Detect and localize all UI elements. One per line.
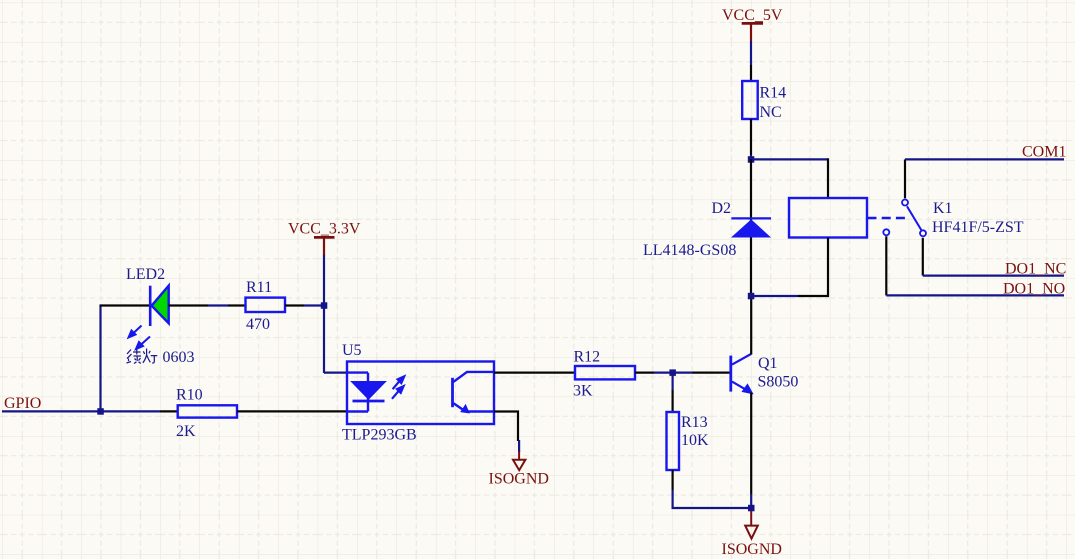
svg-text:DO1_NO: DO1_NO <box>1003 281 1065 298</box>
switch pivot contact <box>902 200 908 206</box>
svg-text:LL4148-GS08: LL4148-GS08 <box>643 242 736 259</box>
resistor R14 <box>742 81 758 119</box>
resistor R11 <box>246 298 286 312</box>
node base junction <box>669 369 676 376</box>
svg-text:U5: U5 <box>342 342 362 359</box>
optocoupler U5 <box>347 362 494 425</box>
LED2 emission arrows <box>129 326 151 350</box>
wire NO vertical (black) <box>885 236 887 295</box>
svg-text:Q1: Q1 <box>758 355 778 372</box>
svg-text:470: 470 <box>246 316 270 333</box>
node collector net top junction <box>748 156 755 163</box>
wire R12 to Q1 base <box>635 372 654 374</box>
svg-text:TLP293GB: TLP293GB <box>342 427 417 444</box>
ground ISOGND (left) <box>513 452 525 471</box>
svg-text:0603: 0603 <box>163 349 195 366</box>
wire GPIO horizontal (navy) <box>2 410 160 412</box>
svg-text:VCC_5V: VCC_5V <box>722 7 783 24</box>
switch arm contact <box>920 230 926 236</box>
wire R10 to U5 pin2 (black) <box>237 410 347 412</box>
svg-text:2K: 2K <box>176 423 196 440</box>
resistor R12 <box>575 366 635 379</box>
svg-text:GPIO: GPIO <box>4 395 41 412</box>
power VCC_3.3V <box>314 237 335 255</box>
wire U5 emitter to ISOGND (black/navy) <box>494 412 518 442</box>
transistor Q1 <box>731 354 753 394</box>
wire top to relay coil <box>751 158 828 160</box>
node emitter/R13 junction <box>748 505 755 512</box>
svg-text:R10: R10 <box>176 387 203 404</box>
wire R13 bottom <box>671 470 673 490</box>
resistor R10 <box>178 405 237 417</box>
wire D2 column (black) <box>750 159 752 296</box>
wire DO1_NC (navy) <box>923 275 1064 277</box>
LED LED2 <box>150 286 169 326</box>
wire DO1_NO (navy) <box>886 294 1064 296</box>
svg-text:ISOGND: ISOGND <box>722 541 782 558</box>
wire R11 to junction <box>285 304 304 306</box>
wire VCC column <box>323 254 325 373</box>
svg-text:HF41F/5-ZST: HF41F/5-ZST <box>932 219 1024 236</box>
label 绿灯 (drawn glyphs) <box>127 349 158 364</box>
svg-text:K1: K1 <box>933 200 953 217</box>
U5 phototransistor <box>453 372 495 413</box>
switch arm <box>907 206 922 230</box>
wire NC vertical (black) <box>922 238 924 276</box>
svg-text:R14: R14 <box>760 85 787 102</box>
wire GPIO to R10 (black) <box>160 410 178 412</box>
svg-text:R12: R12 <box>574 349 601 366</box>
wire VCC_5V to R14 <box>750 41 752 65</box>
wire to U5 pin1 <box>324 372 348 374</box>
wire left vertical to LED row <box>99 306 101 412</box>
wire corner to LED cathode (black) <box>100 304 151 306</box>
svg-text:NC: NC <box>760 104 782 121</box>
U5 internal LED <box>348 373 385 412</box>
wire COM1 vertical (black) <box>904 159 906 198</box>
svg-text:R13: R13 <box>681 414 708 431</box>
ground ISOGND (right) <box>745 511 758 539</box>
svg-text:ISOGND: ISOGND <box>489 471 549 488</box>
svg-text:DO1_NC: DO1_NC <box>1005 261 1066 278</box>
relay actuation dashed link <box>868 217 907 219</box>
wire Q1 emitter down <box>750 393 752 495</box>
svg-text:VCC_3.3V: VCC_3.3V <box>288 221 361 238</box>
svg-text:D2: D2 <box>712 200 732 217</box>
switch NO contact <box>883 229 889 235</box>
svg-text:R11: R11 <box>246 279 272 296</box>
wire U5 collector to R12 (black) <box>494 372 575 374</box>
wire LED to R11 (black + navy piece) <box>169 304 208 306</box>
svg-text:LED2: LED2 <box>126 266 165 283</box>
svg-text:10K: 10K <box>681 432 709 449</box>
resistor R13 <box>667 412 680 470</box>
relay coil K1 <box>789 198 867 238</box>
svg-text:3K: 3K <box>573 383 593 400</box>
wire R14 down <box>750 119 752 155</box>
wire COM1 (navy) <box>905 158 1064 160</box>
diode D2 <box>731 218 771 237</box>
node D2 bottom junction <box>748 293 755 300</box>
wire R13 column <box>671 373 673 390</box>
U5 photo arrows <box>392 376 404 398</box>
node GPIO junction <box>97 408 104 415</box>
node R11/VCC junction <box>321 302 328 309</box>
svg-text:S8050: S8050 <box>758 374 799 391</box>
svg-text:COM1: COM1 <box>1022 144 1066 161</box>
wire Q1 collector up (black) <box>750 296 752 355</box>
wire coil bottom to junction <box>798 238 828 297</box>
